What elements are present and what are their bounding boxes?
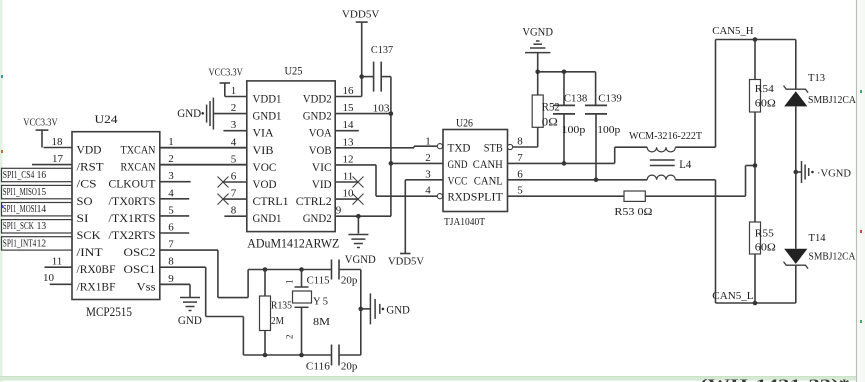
svg-text:VCC3.3V: VCC3.3V [209,68,244,79]
svg-text:C138: C138 [564,94,588,105]
svg-text:VOD: VOD [253,177,277,191]
svg-text:GND2: GND2 [303,211,332,225]
svg-text:1: 1 [231,85,237,97]
svg-text:STB: STB [484,143,503,155]
svg-text:8M: 8M [313,316,330,328]
svg-text:/RX0BF: /RX0BF [77,262,116,276]
svg-text:16: 16 [343,85,355,97]
svg-text:SPLIT: SPLIT [471,192,503,204]
svg-text:4: 4 [231,136,237,148]
svg-text:103: 103 [373,102,391,114]
svg-text:RXD: RXD [448,192,471,204]
svg-text:VGND: VGND [345,254,376,266]
svg-text:SPI1_CS4: SPI1_CS4 [3,170,35,181]
svg-text:5: 5 [168,204,174,216]
svg-text:SO: SO [77,194,93,208]
svg-text:R135: R135 [271,301,292,312]
svg-text:100p: 100p [597,125,620,136]
svg-text:TJA1040T: TJA1040T [444,216,485,228]
svg-text:13: 13 [37,221,47,232]
svg-text:3: 3 [231,119,237,131]
svg-text:2: 2 [425,152,431,164]
svg-text:0Ω: 0Ω [542,117,558,129]
svg-text:SPI1_SCK: SPI1_SCK [3,221,34,232]
svg-text:C115: C115 [307,275,330,286]
svg-text:/INT: /INT [77,245,104,259]
svg-text:R54: R54 [755,84,775,95]
svg-text:60Ω: 60Ω [755,243,776,254]
svg-text:VGND: VGND [522,27,553,39]
svg-text:3: 3 [168,170,174,182]
svg-text:CLKOUT: CLKOUT [109,177,157,191]
svg-text:15: 15 [37,187,47,198]
svg-text:CTRL2: CTRL2 [296,194,332,208]
svg-text:/TX0RTS: /TX0RTS [109,194,156,208]
svg-text:C139: C139 [598,94,622,105]
svg-text:20p: 20p [341,361,358,372]
svg-text:SMBJ12CA: SMBJ12CA [809,251,856,263]
svg-text:OSC1: OSC1 [124,262,156,276]
svg-text:U25: U25 [285,64,303,78]
svg-text:8: 8 [517,136,523,148]
svg-text:6: 6 [231,171,237,183]
svg-text:U26: U26 [456,118,473,130]
svg-text:9: 9 [336,205,342,217]
svg-text:GND1: GND1 [253,109,282,123]
svg-text:VCC: VCC [448,175,468,187]
svg-text:8: 8 [168,256,174,268]
svg-text:16: 16 [37,170,47,181]
svg-text:GND1: GND1 [253,211,282,225]
svg-text:SI: SI [77,211,89,225]
svg-text:8: 8 [231,205,237,217]
svg-text:L4: L4 [679,159,691,171]
svg-text:11: 11 [52,256,63,268]
svg-text:U24: U24 [95,112,118,126]
svg-text:4: 4 [425,185,431,197]
svg-text:5: 5 [231,153,237,165]
svg-text:/TX2RTS: /TX2RTS [109,228,156,242]
svg-text:2: 2 [168,153,174,165]
svg-text:GND: GND [177,106,201,120]
svg-text:60Ω: 60Ω [755,99,776,110]
svg-text:/RX1BF: /RX1BF [77,279,116,293]
svg-text:WCM-3216-222T: WCM-3216-222T [629,131,702,142]
svg-text:T13: T13 [808,72,825,84]
svg-text:/TX1RTS: /TX1RTS [109,211,156,225]
svg-text:VOA: VOA [309,126,332,140]
svg-text:13: 13 [343,136,355,148]
svg-text:SPI1_MOSI: SPI1_MOSI [3,204,37,215]
svg-text:CANL: CANL [474,175,503,187]
svg-text:10: 10 [343,188,355,200]
svg-text:SPI1_MISO: SPI1_MISO [3,187,37,198]
svg-text:GND2: GND2 [303,109,332,123]
svg-text:OSC2: OSC2 [124,245,156,259]
svg-text:6: 6 [517,168,523,180]
svg-text:14: 14 [343,119,355,131]
svg-text:12: 12 [37,238,47,249]
svg-text:CAN5_L: CAN5_L [712,291,753,302]
svg-text:17: 17 [52,153,64,165]
svg-text:SCK: SCK [77,228,101,242]
svg-text:10: 10 [43,272,55,284]
svg-text:1: 1 [285,280,295,285]
svg-text:/RST: /RST [77,160,105,174]
svg-text:2: 2 [285,335,295,340]
svg-text:7: 7 [168,239,174,251]
svg-text:(WH-1431-23)*: (WH-1431-23)* [700,377,850,382]
svg-text:11: 11 [343,171,354,183]
svg-text:Y 5: Y 5 [313,296,328,308]
svg-text:VDD: VDD [77,143,102,157]
svg-text:VID: VID [312,177,332,191]
svg-text:VIA: VIA [253,126,274,140]
svg-text:GND: GND [448,159,468,171]
svg-text:VOB: VOB [309,143,332,157]
svg-text:/CS: /CS [77,177,97,191]
svg-text:R52: R52 [542,102,560,114]
svg-text:18: 18 [52,136,64,148]
svg-text:1: 1 [425,136,431,148]
svg-text:Vss: Vss [137,279,156,293]
svg-text:GND: GND [178,313,202,327]
svg-text:12: 12 [343,153,354,165]
svg-text:SPI1_INT4: SPI1_INT4 [3,238,37,249]
svg-text:5: 5 [517,185,523,197]
svg-text:TXCAN: TXCAN [121,143,156,157]
svg-text:VDD2: VDD2 [303,92,332,106]
svg-text:7: 7 [231,188,237,200]
svg-text:7: 7 [517,152,523,164]
svg-text:ADuM1412ARWZ: ADuM1412ARWZ [247,236,339,251]
svg-text:4: 4 [168,187,174,199]
svg-text:VIC: VIC [312,160,332,174]
svg-text:VDD5V: VDD5V [342,10,380,21]
svg-text:GND: GND [386,303,410,317]
svg-text:·VGND: ·VGND [817,168,851,180]
svg-text:VIB: VIB [253,143,274,157]
svg-text:9: 9 [168,273,174,285]
svg-text:2M: 2M [271,316,285,327]
svg-text:VCC3.3V: VCC3.3V [23,118,58,129]
svg-text:TXD: TXD [448,143,471,155]
svg-text:VOC: VOC [253,160,277,174]
svg-text:2: 2 [231,102,237,114]
svg-text:CAN5_H: CAN5_H [712,26,754,37]
svg-text:CTRL1: CTRL1 [253,194,289,208]
svg-text:R53 0Ω: R53 0Ω [614,206,652,218]
svg-text:VDD5V: VDD5V [388,257,424,268]
svg-text:C137: C137 [371,44,394,56]
svg-text:CANH: CANH [473,159,503,171]
svg-text:3: 3 [425,168,431,180]
svg-text:SMBJ12CA: SMBJ12CA [808,94,856,106]
svg-text:100p: 100p [562,125,586,136]
svg-text:C116: C116 [306,361,330,372]
svg-text:1: 1 [168,136,174,148]
svg-text:R55: R55 [755,229,774,240]
svg-text:T14: T14 [809,232,826,244]
svg-text:15: 15 [343,102,355,114]
svg-text:VDD1: VDD1 [253,92,282,106]
svg-text:6: 6 [168,222,174,234]
svg-text:MCP2515: MCP2515 [86,304,132,319]
svg-text:14: 14 [37,204,47,215]
svg-text:20p: 20p [341,276,358,287]
svg-text:RXCAN: RXCAN [121,160,156,174]
